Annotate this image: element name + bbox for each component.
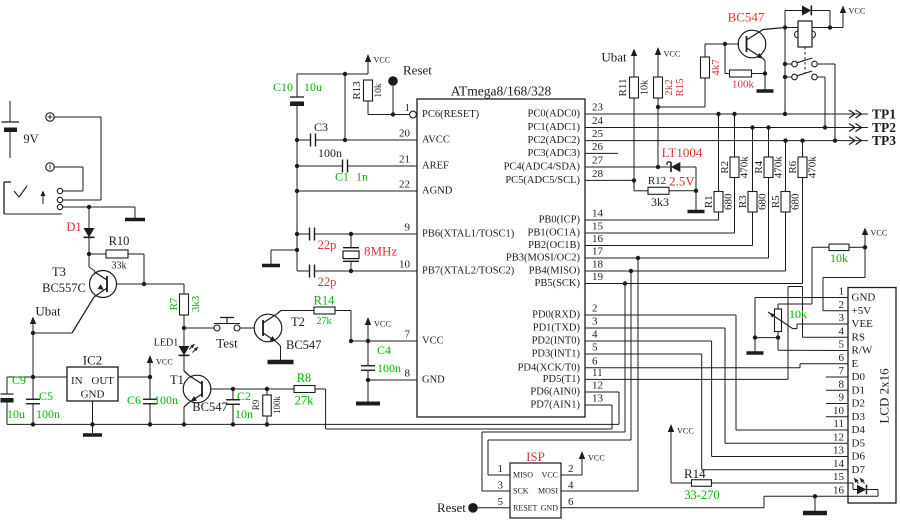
svg-text:LED1: LED1 [154, 338, 178, 349]
svg-text:GND: GND [852, 292, 876, 304]
svg-text:ATmega8/168/328: ATmega8/168/328 [451, 84, 552, 99]
svg-text:2: 2 [568, 463, 574, 475]
svg-text:PB3(MOSI/OC2): PB3(MOSI/OC2) [506, 253, 581, 264]
svg-text:12: 12 [592, 380, 603, 392]
svg-text:4: 4 [839, 325, 845, 337]
svg-text:T2: T2 [291, 315, 305, 329]
svg-text:33-270: 33-270 [684, 488, 719, 502]
svg-text:6: 6 [839, 352, 845, 364]
svg-text:22p: 22p [318, 275, 337, 289]
svg-text:PC1(ADC1): PC1(ADC1) [527, 122, 580, 133]
svg-text:R5: R5 [770, 195, 782, 208]
svg-text:AREF: AREF [422, 161, 449, 172]
svg-text:10k: 10k [374, 83, 384, 98]
svg-text:PB0(ICP): PB0(ICP) [539, 215, 581, 226]
svg-text:100n: 100n [36, 407, 60, 421]
svg-text:15: 15 [833, 471, 845, 483]
svg-text:R9: R9 [251, 399, 261, 410]
svg-text:VCC: VCC [871, 229, 888, 238]
svg-text:7: 7 [405, 329, 411, 341]
svg-text:VCC: VCC [422, 336, 444, 347]
svg-text:1: 1 [498, 463, 504, 475]
svg-text:PC4(ADC4/SDA): PC4(ADC4/SDA) [504, 162, 581, 173]
svg-text:D3: D3 [852, 411, 866, 423]
svg-text:10: 10 [399, 259, 411, 271]
svg-text:33k: 33k [112, 261, 127, 272]
svg-text:R7: R7 [168, 297, 180, 310]
svg-text:7: 7 [839, 365, 845, 377]
svg-text:SCK: SCK [513, 487, 529, 496]
svg-text:D0: D0 [852, 371, 866, 383]
svg-text:13: 13 [833, 445, 845, 457]
svg-text:100k: 100k [732, 79, 755, 91]
svg-text:R/W: R/W [852, 345, 873, 357]
svg-text:6: 6 [592, 355, 598, 367]
svg-text:VCC: VCC [156, 358, 173, 367]
svg-text:1: 1 [839, 286, 845, 298]
svg-text:R1: R1 [703, 195, 715, 208]
svg-text:Test: Test [216, 336, 238, 351]
svg-text:C3: C3 [314, 120, 328, 134]
svg-text:T3: T3 [52, 265, 66, 279]
svg-text:PD6(AIN0): PD6(AIN0) [530, 387, 580, 398]
svg-text:14: 14 [833, 458, 845, 470]
svg-text:100n: 100n [377, 361, 401, 375]
svg-text:10k: 10k [789, 307, 807, 321]
svg-text:R4: R4 [753, 160, 765, 173]
svg-text:12: 12 [833, 431, 844, 443]
svg-text:23: 23 [592, 102, 604, 114]
svg-text:2: 2 [839, 299, 845, 311]
svg-text:C1: C1 [335, 170, 349, 184]
svg-text:Ubat: Ubat [35, 304, 61, 319]
svg-text:680: 680 [757, 193, 769, 210]
svg-text:3: 3 [498, 480, 504, 492]
svg-text:1n: 1n [356, 170, 368, 184]
svg-text:GND: GND [81, 389, 105, 401]
svg-text:27k: 27k [317, 316, 332, 327]
svg-text:R11: R11 [617, 79, 629, 97]
svg-text:R2: R2 [719, 161, 731, 174]
svg-text:D6: D6 [852, 451, 866, 463]
svg-text:PC3(ADC3): PC3(ADC3) [527, 148, 580, 159]
svg-text:D5: D5 [852, 437, 866, 449]
svg-text:E: E [852, 358, 859, 370]
svg-text:GND: GND [541, 503, 559, 512]
svg-text:PB2(OC1B): PB2(OC1B) [528, 240, 580, 251]
svg-text:VCC: VCC [374, 56, 391, 65]
svg-text:24: 24 [592, 115, 604, 127]
svg-text:R3: R3 [737, 195, 749, 208]
svg-text:680: 680 [790, 193, 802, 210]
svg-text:10u: 10u [304, 80, 322, 94]
svg-text:VCC: VCC [588, 454, 605, 463]
svg-text:VCC: VCC [374, 320, 391, 329]
svg-text:470k: 470k [739, 156, 751, 179]
svg-text:27k: 27k [295, 394, 315, 408]
svg-text:LCD 2x16: LCD 2x16 [877, 368, 892, 424]
svg-text:C10: C10 [273, 80, 293, 94]
svg-text:5: 5 [839, 339, 845, 351]
svg-text:8: 8 [405, 368, 411, 380]
svg-text:R14: R14 [314, 294, 336, 308]
svg-text:22p: 22p [318, 238, 337, 252]
svg-text:100n: 100n [154, 393, 178, 407]
svg-text:R14: R14 [684, 466, 706, 481]
svg-text:28: 28 [592, 168, 604, 180]
svg-text:22: 22 [399, 179, 410, 191]
svg-text:PD1(TXD): PD1(TXD) [533, 323, 581, 334]
svg-text:C4: C4 [377, 343, 391, 357]
svg-text:PC0(ADC0): PC0(ADC0) [527, 109, 580, 120]
svg-text:4k7: 4k7 [710, 59, 722, 76]
svg-text:PD7(AIN1): PD7(AIN1) [530, 400, 580, 411]
svg-text:C6: C6 [127, 393, 141, 407]
svg-text:9: 9 [405, 222, 411, 234]
svg-text:D1: D1 [66, 220, 81, 234]
svg-text:2: 2 [592, 303, 598, 315]
svg-text:BC547: BC547 [286, 338, 321, 352]
svg-text:3: 3 [839, 312, 845, 324]
svg-text:5: 5 [498, 496, 504, 508]
svg-text:4: 4 [568, 480, 574, 492]
svg-text:R15: R15 [674, 78, 686, 97]
svg-text:LT1004: LT1004 [662, 145, 703, 160]
svg-text:R8: R8 [297, 371, 312, 385]
svg-text:D7: D7 [852, 464, 866, 476]
svg-text:AVCC: AVCC [422, 135, 450, 146]
svg-text:5: 5 [592, 342, 598, 354]
svg-text:15: 15 [592, 221, 604, 233]
svg-text:Reset: Reset [403, 63, 432, 78]
svg-text:470k: 470k [773, 156, 785, 179]
svg-text:PC2(ADC2): PC2(ADC2) [527, 135, 580, 146]
svg-text:PD0(RXD): PD0(RXD) [532, 310, 580, 321]
svg-text:11: 11 [592, 367, 603, 379]
svg-text:27: 27 [592, 155, 604, 167]
svg-text:Reset: Reset [437, 500, 466, 515]
svg-text:VCC: VCC [677, 427, 694, 436]
svg-text:10k: 10k [830, 251, 848, 265]
svg-text:10: 10 [833, 405, 845, 417]
svg-text:100k: 100k [272, 396, 282, 415]
svg-text:PB6(XTAL1/TOSC1): PB6(XTAL1/TOSC1) [422, 229, 515, 240]
svg-text:MISO: MISO [513, 471, 533, 480]
svg-text:Ubat: Ubat [601, 50, 627, 65]
svg-text:14: 14 [592, 208, 604, 220]
svg-text:GND: GND [422, 375, 445, 386]
svg-text:PD3(INT1): PD3(INT1) [532, 349, 581, 360]
svg-text:R12: R12 [648, 175, 666, 187]
svg-text:11: 11 [833, 418, 844, 430]
svg-text:8MHz: 8MHz [364, 244, 397, 259]
svg-text:4: 4 [592, 329, 598, 341]
svg-text:MOSI: MOSI [538, 487, 558, 496]
svg-text:16: 16 [833, 484, 845, 496]
svg-text:18: 18 [592, 259, 604, 271]
svg-text:R10: R10 [109, 234, 130, 248]
svg-text:21: 21 [399, 154, 410, 166]
svg-text:D4: D4 [852, 424, 866, 436]
svg-text:2.5V: 2.5V [669, 174, 695, 189]
svg-text:26: 26 [592, 141, 604, 153]
svg-text:19: 19 [592, 271, 604, 283]
svg-text:16: 16 [592, 233, 604, 245]
svg-text:PC5(ADC5/SCL): PC5(ADC5/SCL) [505, 175, 580, 186]
svg-text:D1: D1 [852, 384, 865, 396]
svg-text:C5: C5 [39, 389, 53, 403]
svg-text:T1: T1 [170, 373, 184, 387]
svg-text:IN: IN [71, 375, 83, 387]
svg-text:PC6(RESET): PC6(RESET) [422, 109, 480, 120]
svg-text:10k: 10k [640, 80, 651, 95]
svg-text:PB1(OC1A): PB1(OC1A) [527, 228, 580, 239]
svg-text:25: 25 [592, 128, 604, 140]
svg-text:13: 13 [592, 393, 604, 405]
svg-text:1: 1 [405, 102, 411, 114]
svg-text:D2: D2 [852, 398, 865, 410]
svg-text:PD5(T1): PD5(T1) [543, 374, 581, 385]
svg-text:VCC: VCC [542, 471, 558, 480]
svg-text:BC547: BC547 [728, 10, 765, 25]
svg-text:3k3: 3k3 [190, 295, 202, 312]
svg-text:PB4(MISO): PB4(MISO) [529, 266, 581, 277]
svg-text:PB5(SCK): PB5(SCK) [534, 278, 580, 289]
svg-text:VEE: VEE [852, 318, 874, 330]
svg-text:6: 6 [568, 496, 574, 508]
svg-text:20: 20 [399, 128, 411, 140]
svg-text:PB7(XTAL2/TOSC2): PB7(XTAL2/TOSC2) [422, 266, 515, 277]
svg-text:9V: 9V [23, 132, 38, 146]
svg-text:17: 17 [592, 246, 604, 258]
svg-text:100n: 100n [318, 146, 342, 160]
svg-text:ISP: ISP [526, 449, 545, 464]
svg-text:BC557C: BC557C [42, 281, 86, 295]
svg-text:IC2: IC2 [83, 353, 103, 368]
svg-text:BC547: BC547 [192, 400, 227, 414]
svg-text:OUT: OUT [91, 375, 114, 387]
svg-text:RESET: RESET [513, 503, 538, 512]
svg-text:3k3: 3k3 [651, 195, 669, 209]
svg-text:C9: C9 [12, 373, 26, 387]
svg-text:470k: 470k [807, 156, 819, 179]
svg-text:3: 3 [592, 316, 598, 328]
svg-text:R13: R13 [351, 81, 363, 100]
svg-text:PD4(XCK/T0): PD4(XCK/T0) [518, 362, 581, 373]
svg-text:680: 680 [723, 193, 735, 210]
svg-text:TP3: TP3 [872, 133, 896, 148]
svg-text:VCC: VCC [664, 50, 681, 59]
svg-text:R6: R6 [787, 160, 799, 173]
svg-text:8: 8 [839, 378, 845, 390]
svg-text:9: 9 [839, 392, 845, 404]
svg-text:VCC: VCC [849, 7, 866, 16]
svg-text:PD2(INT0): PD2(INT0) [532, 336, 581, 347]
svg-text:C2: C2 [237, 389, 251, 403]
svg-text:RS: RS [852, 331, 865, 343]
svg-text:10u: 10u [7, 407, 25, 421]
svg-text:AGND: AGND [422, 186, 453, 197]
svg-text:+5V: +5V [852, 305, 872, 317]
